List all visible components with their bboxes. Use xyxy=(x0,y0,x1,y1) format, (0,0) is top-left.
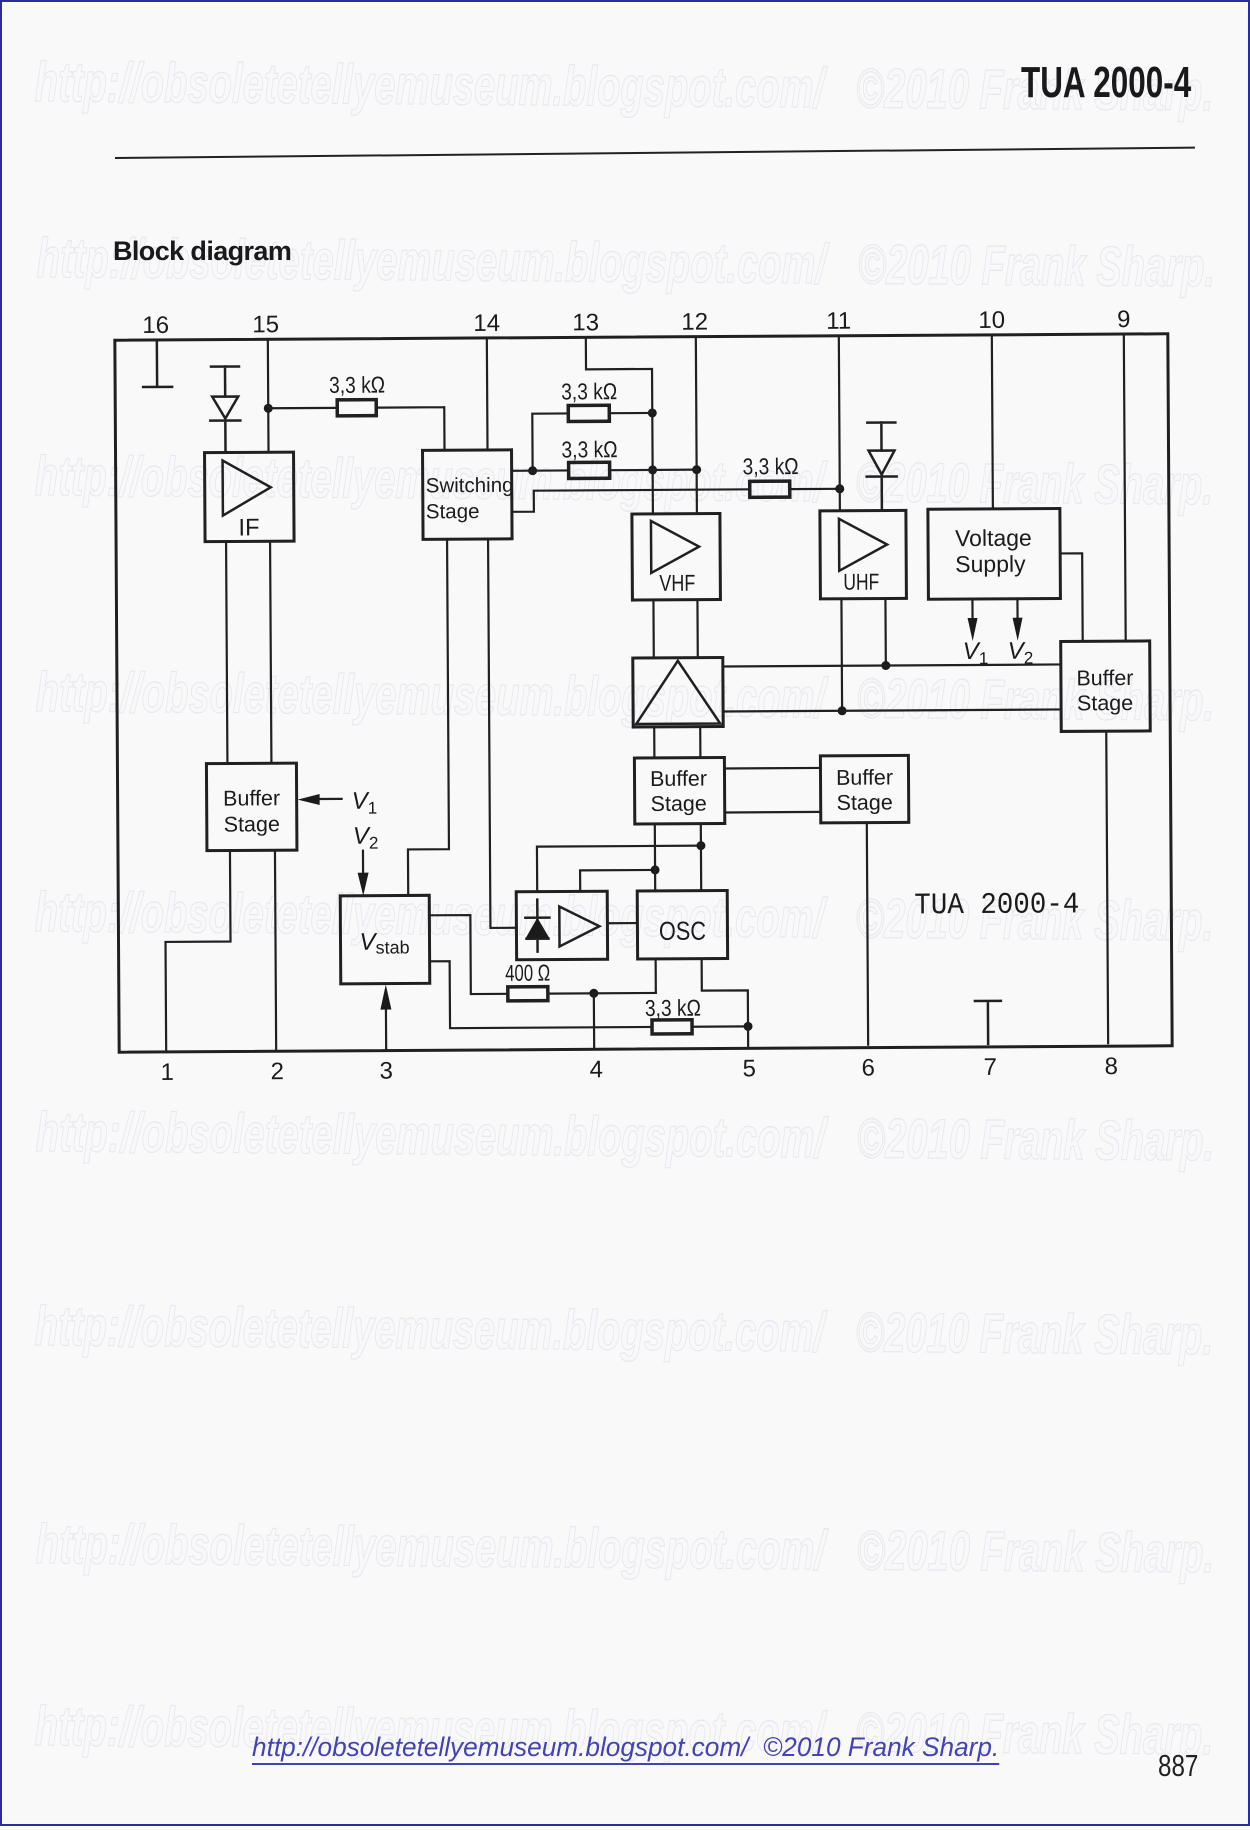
V1 arrow into buffer stage xyxy=(298,794,342,805)
resistor R6 3,3 kOhm (bottom) xyxy=(652,1019,748,1034)
wire pin 4 xyxy=(593,993,596,1048)
value label R4 3,3 kOhm xyxy=(743,453,799,479)
wire resistor column to VHF xyxy=(651,413,654,514)
svg-text:4: 4 xyxy=(590,1056,604,1083)
junction node at 654,870 xyxy=(651,865,660,874)
svg-text:Buffer: Buffer xyxy=(223,786,280,810)
svg-text:Stage: Stage xyxy=(426,500,480,523)
label VHF xyxy=(659,570,695,596)
svg-text:15: 15 xyxy=(252,311,279,338)
pin label 14 xyxy=(473,310,500,337)
svg-text:3,3 kΩ: 3,3 kΩ xyxy=(743,453,799,479)
label V1 output xyxy=(963,638,989,668)
resistor R1 3,3 kOhm (IF line) xyxy=(268,399,444,451)
pin label 2 xyxy=(271,1058,285,1085)
pin label 5 xyxy=(743,1055,757,1082)
pin label 10 xyxy=(978,307,1005,334)
heading Block diagram xyxy=(113,236,291,267)
resistor R5 400 Ohm xyxy=(508,986,656,1001)
junction node at 700,846 xyxy=(696,841,705,850)
wire pin 14 continuation to AFC block xyxy=(488,539,516,928)
svg-text:1: 1 xyxy=(161,1059,175,1086)
buffer stage U5 (mixer output) xyxy=(634,758,724,825)
svg-text:3,3 kΩ: 3,3 kΩ xyxy=(561,436,617,462)
wire Vstab to 400 Ohm line xyxy=(429,915,507,994)
footer link xyxy=(252,1732,999,1763)
wires buffer U5 to buffer U4 xyxy=(724,768,820,813)
wires VHF to mixer xyxy=(653,600,697,658)
wires mixer to buffer stage xyxy=(654,727,700,758)
svg-text:TUA 2000-4: TUA 2000-4 xyxy=(914,888,1079,923)
svg-text:V2: V2 xyxy=(353,823,379,853)
pin 3 arrow into Vstab xyxy=(380,985,391,1050)
svg-text:10: 10 xyxy=(978,307,1005,334)
V2 output arrow xyxy=(1012,599,1022,641)
wire IF to buffer stage (left pair) xyxy=(226,541,271,763)
pin label 1 xyxy=(161,1059,175,1086)
voltage supply block xyxy=(928,508,1061,599)
mixer block xyxy=(633,658,723,728)
svg-text:6: 6 xyxy=(862,1055,876,1082)
svg-text:11: 11 xyxy=(826,308,851,335)
svg-text:400 Ω: 400 Ω xyxy=(505,960,550,986)
label UHF xyxy=(843,569,879,595)
wire buffer to pin 1 xyxy=(165,851,231,1051)
wire switching stage to Vstab xyxy=(406,539,449,895)
label buffer stage U4 xyxy=(836,765,893,814)
watermark row 5 xyxy=(35,884,1214,949)
wire AFC top right to buffer column xyxy=(580,870,655,891)
wire buffer to pin 2 xyxy=(275,850,276,1050)
Vstab block xyxy=(340,895,430,984)
svg-text:Buffer: Buffer xyxy=(650,767,707,791)
page number 887 xyxy=(1158,1748,1198,1784)
watermark row 7 xyxy=(35,1298,1214,1363)
svg-text:3,3 kΩ: 3,3 kΩ xyxy=(561,378,617,404)
AFC block with diode and amplifier xyxy=(516,891,607,960)
wire AFC to OSC xyxy=(607,922,637,924)
watermark row 4 xyxy=(36,664,1215,729)
wire pin 12 to VHF xyxy=(696,338,697,514)
pin label 6 xyxy=(862,1055,876,1082)
wire OSC left output down to 400 Ohm line xyxy=(655,959,657,993)
watermark row 8 xyxy=(36,1516,1215,1581)
wire OSC right output to pin 5 xyxy=(702,958,749,1047)
pin label 8 xyxy=(1105,1053,1119,1080)
svg-text:Stage: Stage xyxy=(837,790,893,814)
diagram outer border xyxy=(115,334,1172,1052)
value label R1 3,3 kOhm xyxy=(329,372,385,398)
junction node on pin15 wire xyxy=(264,404,273,413)
wire pin 9 to buffer stage xyxy=(1124,335,1126,641)
wire pin 15 to IF xyxy=(267,340,270,452)
IF block xyxy=(205,452,295,542)
pin label 16 xyxy=(142,312,169,339)
pin label 3 xyxy=(380,1058,394,1085)
resistor R4 3,3 kOhm (UHF line) xyxy=(750,481,840,498)
wire AFC top left to buffer column xyxy=(537,846,701,892)
wires buffer stage to OSC xyxy=(655,824,701,891)
svg-text:9: 9 xyxy=(1117,306,1131,333)
svg-text:3,3 kΩ: 3,3 kΩ xyxy=(645,995,701,1021)
svg-text:5: 5 xyxy=(743,1055,757,1082)
value label R3 3,3 kOhm xyxy=(561,436,617,462)
junction node pin 5 xyxy=(744,1022,753,1031)
svg-text:OSC: OSC xyxy=(659,916,706,946)
buffer stage U4 (osc buffer) xyxy=(820,755,908,823)
switching stage block xyxy=(423,450,513,540)
svg-text:Buffer: Buffer xyxy=(836,765,893,789)
label V2 at Vstab xyxy=(353,823,379,853)
pin label 12 xyxy=(681,309,708,336)
junction nodes under UHF xyxy=(837,661,890,715)
watermark row 9 xyxy=(35,1698,1214,1763)
svg-text:13: 13 xyxy=(572,309,599,336)
junction node on pin 12 wire xyxy=(692,465,701,474)
OSC block xyxy=(637,890,727,959)
buffer stage U6 (output) xyxy=(1061,641,1151,732)
svg-text:2: 2 xyxy=(271,1058,285,1085)
pin label 4 xyxy=(590,1056,604,1083)
svg-text:Vstab: Vstab xyxy=(359,928,409,957)
resistor R2 3,3 kOhm (upper) xyxy=(532,405,652,471)
svg-text:Stage: Stage xyxy=(1077,691,1133,715)
pin label 11 xyxy=(826,308,851,335)
watermark row 3 xyxy=(35,448,1214,513)
wire pin 13 jog xyxy=(586,338,652,413)
VHF block xyxy=(632,514,721,601)
mixer to buffer stage line 2 xyxy=(723,709,1061,711)
mixer to buffer stage line 1 xyxy=(723,664,1061,666)
wire voltage supply to buffer stage xyxy=(1060,553,1083,641)
pin label 13 xyxy=(572,309,599,336)
header title TUA 2000-4 xyxy=(1021,58,1191,108)
watermark row 2 xyxy=(37,230,1216,295)
svg-text:3,3 kΩ: 3,3 kΩ xyxy=(329,372,385,398)
pin label 9 xyxy=(1117,306,1131,333)
svg-text:Buffer: Buffer xyxy=(1076,666,1133,690)
svg-text:VHF: VHF xyxy=(659,570,695,596)
svg-text:8: 8 xyxy=(1105,1053,1119,1080)
buffer stage U2 (IF output) xyxy=(206,763,297,851)
wire buffer stage to pin 8 xyxy=(1106,731,1108,1043)
junction node at 534,470 xyxy=(528,466,537,475)
value label R2 3,3 kOhm xyxy=(561,378,617,404)
svg-text:Stage: Stage xyxy=(224,812,280,836)
value label R5 400 Ohm xyxy=(505,960,550,986)
label V2 output xyxy=(1008,638,1034,668)
V2 arrow to Vstab xyxy=(357,851,368,896)
diode D2 at UHF input xyxy=(866,422,897,510)
value label R6 3,3 kOhm xyxy=(645,995,701,1021)
ground symbol at pin 16 xyxy=(143,341,172,387)
svg-text:14: 14 xyxy=(473,310,500,337)
resistor R3 3,3 kOhm (lower) xyxy=(512,462,697,479)
svg-text:V2: V2 xyxy=(1008,638,1034,668)
junction nodes on VHF column xyxy=(648,408,657,474)
wire pin 11 to UHF xyxy=(839,337,840,511)
watermark row 6 xyxy=(36,1104,1215,1169)
svg-text:UHF: UHF xyxy=(843,569,879,595)
svg-text:V1: V1 xyxy=(352,788,378,818)
svg-text:Voltage: Voltage xyxy=(955,525,1032,551)
label buffer stage U2 xyxy=(223,786,280,836)
V1 output arrow xyxy=(967,599,977,641)
wire pin 14 to switching stage xyxy=(486,339,489,450)
wire pin 10 to voltage supply xyxy=(992,336,993,509)
svg-text:IF: IF xyxy=(238,514,259,541)
wire switching stage to band line xyxy=(512,489,750,511)
svg-text:12: 12 xyxy=(681,309,708,336)
svg-text:3: 3 xyxy=(380,1058,394,1085)
pin label 15 xyxy=(252,311,279,338)
svg-text:16: 16 xyxy=(142,312,169,339)
wire buffer U4 to pin 6 xyxy=(867,823,868,1045)
label buffer stage U5 xyxy=(650,767,707,816)
label OSC xyxy=(659,916,706,946)
label buffer stage U6 xyxy=(1076,666,1133,715)
wires UHF to mixer output lines xyxy=(841,599,886,711)
junction node pin 4 xyxy=(589,989,598,998)
junction node on pin 11 wire xyxy=(835,484,844,493)
svg-text:Stage: Stage xyxy=(651,792,707,816)
ground symbol at pin 7 xyxy=(975,1001,1001,1044)
label Vstab xyxy=(359,928,409,957)
diode D1 at pin 15 input xyxy=(210,366,241,452)
wire Vstab to 3,3k bottom line xyxy=(430,960,652,1028)
UHF block xyxy=(820,510,907,599)
label voltage supply xyxy=(955,525,1032,577)
svg-text:Supply: Supply xyxy=(955,551,1026,577)
svg-text:7: 7 xyxy=(984,1054,998,1081)
label switching stage xyxy=(426,474,514,524)
svg-text:V1: V1 xyxy=(963,638,989,668)
svg-text:Switching: Switching xyxy=(426,474,514,498)
header rule xyxy=(115,147,1195,159)
label V1 at buffer stage xyxy=(352,788,378,818)
pin label 7 xyxy=(984,1054,998,1081)
watermark row 1 xyxy=(35,54,1214,119)
label IF xyxy=(238,514,259,541)
part number TUA 2000-4 xyxy=(914,888,1079,923)
